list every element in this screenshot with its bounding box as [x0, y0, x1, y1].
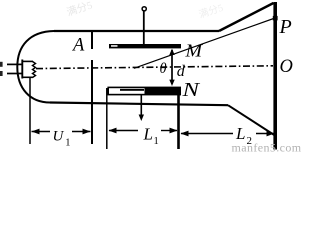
tube bottom wall: [50, 103, 228, 106]
screen: [273, 2, 277, 150]
plate N inner dash: [120, 89, 144, 91]
beam line: [134, 18, 275, 68]
plate N lead: [140, 95, 142, 117]
axis (dash-dot): [36, 66, 273, 69]
dimension L1: [109, 125, 178, 148]
cathode lead upper: [7, 63, 22, 65]
anode A electrode lower segment / U1 right extension: [91, 60, 93, 144]
svg-text:P: P: [279, 16, 292, 38]
left edge pin marks: [0, 62, 3, 67]
tube top flare wall: [219, 3, 274, 31]
plate M lead: [143, 11, 145, 45]
plate M notch: [111, 45, 118, 47]
anode A electrode upper segment: [91, 32, 93, 49]
U1 left extension line: [29, 78, 31, 145]
gap arrow d: [171, 50, 173, 84]
svg-text:O: O: [280, 57, 293, 77]
svg-text:1: 1: [65, 137, 70, 148]
filament box top: [22, 60, 33, 62]
svg-text:manfen5.com: manfen5.com: [232, 141, 302, 153]
filament box bottom: [22, 76, 33, 78]
svg-text:1: 1: [154, 136, 159, 147]
dimension L2: [181, 124, 275, 147]
svg-text:M: M: [184, 41, 203, 61]
L1 left extension line: [106, 88, 108, 149]
svg-text:d: d: [177, 63, 186, 80]
svg-text:U: U: [53, 129, 65, 145]
point P dot: [273, 16, 278, 21]
svg-text:L: L: [143, 125, 153, 144]
tube top wall: [54, 30, 219, 32]
svg-text:A: A: [71, 36, 85, 56]
svg-text:θ: θ: [160, 61, 167, 77]
svg-text:N: N: [181, 80, 200, 101]
plate M bar: [109, 44, 181, 48]
cathode plate bar: [21, 60, 23, 79]
cathode lead lower: [7, 73, 22, 75]
dimension U1: [32, 129, 91, 149]
tube bulb arc: [17, 31, 54, 103]
plate N box: [108, 87, 180, 94]
plate N lead arrowhead: [139, 115, 144, 122]
plate N solid right half: [145, 87, 181, 94]
L1 right extension line (thick): [177, 95, 180, 149]
plate M terminal circle: [142, 7, 146, 11]
tube bottom flare wall: [228, 105, 275, 135]
filament coil: [33, 62, 36, 78]
